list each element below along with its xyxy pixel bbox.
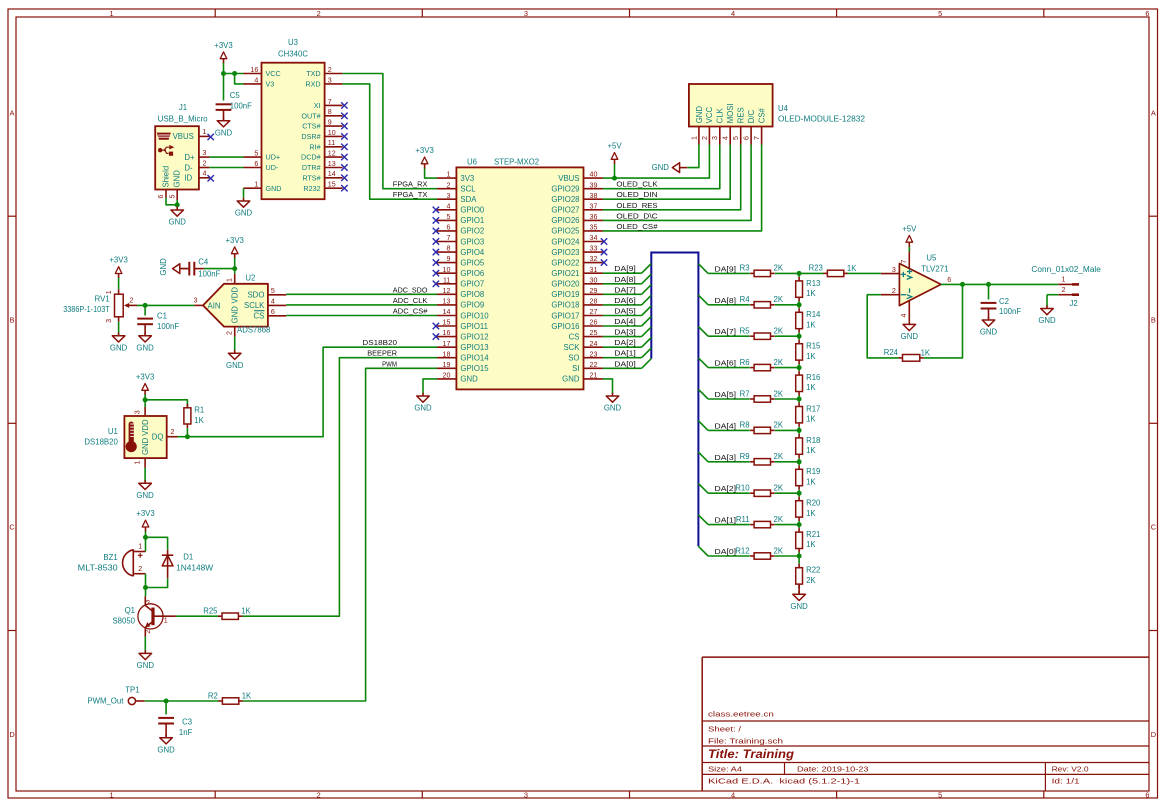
svg-text:R10: R10 — [735, 484, 750, 493]
svg-text:33: 33 — [590, 245, 598, 253]
svg-text:2: 2 — [138, 565, 142, 573]
svg-text:31: 31 — [590, 266, 598, 274]
svg-text:DA[3]: DA[3] — [614, 328, 636, 337]
svg-text:DA[8]: DA[8] — [715, 296, 737, 305]
svg-text:TP1: TP1 — [125, 685, 139, 694]
svg-text:1K: 1K — [806, 320, 816, 329]
svg-text:DA[9]: DA[9] — [715, 264, 737, 273]
svg-text:RXD: RXD — [305, 80, 320, 89]
svg-text:ADC_SDO: ADC_SDO — [393, 285, 428, 294]
svg-text:1K: 1K — [847, 264, 857, 273]
svg-text:DTR#: DTR# — [302, 163, 321, 172]
svg-text:D: D — [1151, 730, 1156, 739]
svg-text:Sheet: /: Sheet: / — [708, 725, 742, 734]
svg-text:TXD: TXD — [306, 69, 320, 78]
svg-text:Shield: Shield — [161, 166, 170, 188]
svg-text:U4: U4 — [778, 104, 789, 113]
svg-text:14: 14 — [443, 308, 451, 316]
svg-text:6: 6 — [254, 160, 258, 168]
svg-text:GPIO7: GPIO7 — [460, 280, 484, 289]
svg-text:GND: GND — [231, 306, 240, 324]
svg-text:RES: RES — [737, 107, 746, 123]
svg-text:D/C: D/C — [747, 110, 756, 124]
svg-text:7: 7 — [328, 98, 332, 106]
svg-text:1: 1 — [690, 136, 698, 140]
svg-text:6: 6 — [947, 276, 951, 284]
svg-text:2K: 2K — [774, 546, 784, 555]
svg-text:2: 2 — [129, 296, 133, 304]
svg-text:CS#: CS# — [758, 107, 767, 123]
svg-text:13: 13 — [443, 298, 451, 306]
svg-text:DA[1]: DA[1] — [614, 349, 636, 358]
svg-text:+3V3: +3V3 — [214, 41, 232, 50]
svg-text:4: 4 — [254, 76, 258, 84]
svg-text:GND: GND — [159, 258, 168, 276]
svg-text:21: 21 — [590, 372, 598, 380]
svg-text:4: 4 — [722, 136, 730, 140]
svg-text:OUT#: OUT# — [301, 111, 320, 120]
svg-text:DA[6]: DA[6] — [614, 296, 636, 305]
svg-text:38: 38 — [590, 192, 598, 200]
svg-text:GND: GND — [173, 170, 182, 188]
svg-text:+5V: +5V — [607, 141, 622, 150]
svg-text:GND: GND — [790, 602, 808, 611]
svg-text:R1: R1 — [194, 406, 204, 415]
svg-text:8: 8 — [446, 245, 450, 253]
svg-text:GND: GND — [110, 343, 128, 352]
svg-text:C5: C5 — [230, 91, 241, 100]
svg-text:1nF: 1nF — [179, 728, 193, 737]
svg-text:Id: 1/1: Id: 1/1 — [1052, 777, 1080, 786]
svg-text:GND: GND — [136, 491, 154, 500]
svg-text:STEP-MXO2: STEP-MXO2 — [494, 157, 539, 166]
svg-text:OLED_CS#: OLED_CS# — [616, 222, 658, 231]
svg-text:GPIO18: GPIO18 — [551, 301, 579, 310]
svg-text:2: 2 — [202, 159, 206, 167]
svg-text:SCLK: SCLK — [244, 301, 265, 310]
svg-text:6: 6 — [1145, 9, 1149, 18]
svg-text:R18: R18 — [806, 436, 820, 445]
svg-text:J1: J1 — [179, 103, 187, 112]
svg-text:15: 15 — [443, 319, 451, 327]
svg-text:class.eetree.cn: class.eetree.cn — [708, 710, 774, 719]
svg-text:R17: R17 — [806, 404, 820, 413]
svg-text:DCD#: DCD# — [301, 153, 321, 162]
svg-text:R16: R16 — [806, 373, 820, 382]
svg-text:B: B — [1151, 316, 1156, 325]
svg-text:1: 1 — [110, 9, 114, 18]
svg-text:1: 1 — [446, 171, 450, 179]
svg-text:MOSI: MOSI — [726, 103, 735, 123]
svg-text:R7: R7 — [740, 389, 750, 398]
svg-text:GPIO12: GPIO12 — [460, 332, 488, 341]
svg-text:GPIO15: GPIO15 — [460, 364, 489, 373]
svg-text:1K: 1K — [241, 607, 251, 616]
svg-text:GPIO5: GPIO5 — [460, 258, 484, 267]
svg-text:DA[5]: DA[5] — [614, 307, 636, 316]
svg-text:8: 8 — [328, 108, 332, 116]
svg-text:4: 4 — [731, 790, 735, 799]
svg-text:11: 11 — [328, 139, 335, 147]
svg-text:DA[8]: DA[8] — [614, 275, 636, 284]
svg-text:2: 2 — [701, 136, 709, 140]
svg-text:U3: U3 — [288, 38, 298, 47]
svg-text:11: 11 — [443, 276, 450, 284]
svg-text:DA[0]: DA[0] — [614, 359, 636, 368]
svg-text:6: 6 — [1145, 790, 1149, 799]
svg-text:CS: CS — [254, 312, 265, 321]
svg-text:KiCad E.D.A. kicad (5.1.2-1)-: KiCad E.D.A. kicad (5.1.2-1)-1 — [708, 777, 860, 786]
svg-text:DA[3]: DA[3] — [715, 453, 737, 462]
svg-text:DA[4]: DA[4] — [715, 421, 737, 430]
svg-text:1K: 1K — [806, 415, 816, 424]
svg-text:DA[7]: DA[7] — [715, 327, 737, 336]
svg-text:GPIO29: GPIO29 — [551, 185, 579, 194]
svg-text:2: 2 — [317, 790, 321, 799]
svg-text:3: 3 — [143, 599, 151, 603]
svg-text:USB_B_Micro: USB_B_Micro — [158, 114, 209, 123]
svg-text:DS18B20: DS18B20 — [84, 437, 118, 446]
svg-text:4: 4 — [900, 313, 908, 317]
svg-text:4: 4 — [731, 9, 735, 18]
svg-text:SDO: SDO — [247, 291, 264, 300]
svg-text:32: 32 — [590, 255, 598, 263]
svg-text:1N4148W: 1N4148W — [176, 563, 214, 572]
svg-text:+3V3: +3V3 — [136, 509, 154, 518]
svg-text:GND: GND — [136, 343, 154, 352]
svg-text:15: 15 — [328, 181, 336, 189]
svg-text:GND: GND — [215, 128, 233, 137]
svg-text:GND: GND — [414, 404, 432, 413]
svg-text:28: 28 — [590, 298, 598, 306]
svg-text:+3V3: +3V3 — [415, 146, 433, 155]
svg-text:17: 17 — [443, 340, 451, 348]
svg-text:D+: D+ — [184, 153, 195, 162]
svg-text:6: 6 — [157, 194, 165, 198]
svg-text:GPIO9: GPIO9 — [460, 301, 484, 310]
svg-text:2: 2 — [328, 66, 332, 74]
svg-text:GPIO3: GPIO3 — [460, 237, 484, 246]
svg-text:OLED-MODULE-12832: OLED-MODULE-12832 — [778, 115, 865, 124]
svg-text:GND: GND — [266, 184, 282, 193]
svg-text:U1: U1 — [108, 427, 118, 436]
svg-text:12: 12 — [328, 150, 336, 158]
svg-text:RV1: RV1 — [95, 295, 110, 304]
svg-text:2: 2 — [446, 181, 450, 189]
svg-text:2K: 2K — [774, 264, 784, 273]
svg-text:OLED_DIN: OLED_DIN — [616, 190, 657, 199]
svg-text:SI: SI — [572, 364, 579, 373]
svg-text:ADC_CS#: ADC_CS# — [393, 307, 428, 316]
svg-text:GND: GND — [235, 209, 253, 218]
svg-text:16: 16 — [443, 329, 451, 337]
svg-text:CH340C: CH340C — [278, 50, 308, 59]
svg-text:2K: 2K — [806, 576, 816, 585]
svg-text:27: 27 — [590, 308, 598, 316]
svg-text:6: 6 — [271, 308, 275, 316]
svg-text:+3V3: +3V3 — [225, 236, 243, 245]
svg-text:2: 2 — [1062, 286, 1066, 294]
svg-text:3V3: 3V3 — [460, 174, 474, 183]
svg-text:5: 5 — [254, 150, 258, 158]
svg-text:12: 12 — [443, 287, 451, 295]
svg-text:DSR#: DSR# — [301, 132, 320, 141]
svg-text:Date: 2019-10-23: Date: 2019-10-23 — [797, 764, 869, 773]
svg-text:16: 16 — [250, 66, 258, 74]
svg-text:S8050: S8050 — [112, 617, 135, 626]
svg-text:4: 4 — [202, 170, 206, 178]
svg-text:File: Training.sch: File: Training.sch — [708, 737, 783, 746]
svg-text:DA[2]: DA[2] — [614, 338, 636, 347]
svg-text:6: 6 — [743, 136, 751, 140]
svg-text:GPIO2: GPIO2 — [460, 227, 484, 236]
svg-text:R14: R14 — [806, 310, 821, 319]
svg-text:5: 5 — [938, 790, 942, 799]
svg-text:V3: V3 — [266, 80, 275, 89]
svg-text:7: 7 — [446, 234, 450, 242]
svg-text:3: 3 — [446, 192, 450, 200]
svg-text:29: 29 — [590, 287, 598, 295]
svg-text:14: 14 — [328, 170, 336, 178]
svg-text:26: 26 — [590, 319, 598, 327]
svg-text:RI#: RI# — [309, 142, 320, 151]
svg-text:3: 3 — [524, 790, 528, 799]
svg-text:36: 36 — [590, 213, 598, 221]
svg-text:BEEPER: BEEPER — [367, 349, 397, 358]
svg-text:J2: J2 — [1070, 299, 1078, 308]
svg-text:10: 10 — [443, 266, 451, 274]
svg-text:GPIO24: GPIO24 — [551, 237, 580, 246]
svg-text:2K: 2K — [774, 515, 784, 524]
svg-text:35: 35 — [590, 224, 598, 232]
svg-text:1: 1 — [134, 460, 142, 464]
svg-text:R232: R232 — [303, 184, 320, 193]
svg-text:2K: 2K — [774, 327, 784, 336]
svg-text:GPIO28: GPIO28 — [551, 195, 579, 204]
svg-text:GPIO23: GPIO23 — [551, 248, 579, 257]
svg-text:+3V3: +3V3 — [109, 256, 127, 265]
svg-text:RTS#: RTS# — [302, 173, 320, 182]
svg-text:1K: 1K — [806, 540, 816, 549]
svg-text:4: 4 — [271, 298, 275, 306]
svg-text:100nF: 100nF — [198, 269, 220, 278]
svg-text:GPIO19: GPIO19 — [551, 290, 579, 299]
svg-text:U5: U5 — [926, 254, 937, 263]
svg-text:GPIO8: GPIO8 — [460, 290, 484, 299]
svg-text:34: 34 — [590, 234, 598, 242]
svg-text:D-: D- — [184, 163, 193, 172]
svg-text:C4: C4 — [198, 258, 209, 267]
svg-text:GND: GND — [141, 437, 150, 455]
svg-text:1: 1 — [1062, 276, 1066, 284]
svg-text:GPIO22: GPIO22 — [551, 258, 579, 267]
svg-text:R9: R9 — [740, 452, 750, 461]
svg-text:3: 3 — [524, 9, 528, 18]
svg-text:R11: R11 — [736, 515, 750, 524]
svg-text:FPGA_TX: FPGA_TX — [393, 190, 428, 199]
svg-text:5: 5 — [271, 287, 275, 295]
svg-text:R4: R4 — [740, 295, 751, 304]
svg-text:Q1: Q1 — [125, 606, 135, 615]
svg-text:3: 3 — [892, 266, 896, 274]
svg-text:DQ: DQ — [152, 433, 164, 442]
svg-text:R25: R25 — [203, 607, 218, 616]
svg-text:VBUS: VBUS — [173, 132, 194, 141]
svg-text:1K: 1K — [194, 416, 204, 425]
svg-text:10: 10 — [328, 129, 336, 137]
svg-text:GND: GND — [695, 106, 704, 124]
svg-text:3386P-1-103T: 3386P-1-103T — [63, 305, 110, 314]
svg-text:DS18B20: DS18B20 — [362, 338, 397, 347]
svg-text:+3V3: +3V3 — [136, 372, 154, 381]
svg-text:C: C — [9, 523, 15, 532]
svg-text:1K: 1K — [806, 289, 816, 298]
svg-text:1: 1 — [202, 128, 206, 136]
svg-text:DA[1]: DA[1] — [715, 516, 737, 525]
svg-text:GPIO27: GPIO27 — [551, 206, 579, 215]
svg-text:GPIO14: GPIO14 — [460, 354, 489, 363]
svg-text:7: 7 — [753, 136, 761, 140]
svg-text:GPIO21: GPIO21 — [551, 269, 579, 278]
svg-text:SCL: SCL — [460, 185, 476, 194]
svg-text:R23: R23 — [809, 264, 823, 273]
svg-text:100nF: 100nF — [230, 101, 252, 110]
svg-text:5: 5 — [732, 136, 740, 140]
svg-text:30: 30 — [590, 276, 598, 284]
svg-text:19: 19 — [443, 361, 451, 369]
svg-text:1K: 1K — [806, 352, 816, 361]
svg-text:DA[6]: DA[6] — [715, 359, 737, 368]
svg-text:2K: 2K — [774, 452, 784, 461]
svg-text:4: 4 — [446, 202, 450, 210]
svg-text:R20: R20 — [806, 499, 821, 508]
svg-text:B: B — [10, 316, 15, 325]
svg-text:GND: GND — [460, 375, 478, 384]
svg-text:3: 3 — [194, 296, 198, 304]
svg-text:GND: GND — [1038, 316, 1056, 325]
svg-text:1K: 1K — [806, 509, 816, 518]
svg-text:GND: GND — [137, 661, 155, 670]
svg-text:GND: GND — [157, 745, 175, 754]
svg-text:2: 2 — [317, 9, 321, 18]
svg-text:Rev: V2.0: Rev: V2.0 — [1052, 764, 1089, 773]
svg-text:C: C — [1151, 523, 1157, 532]
svg-text:VDD: VDD — [141, 419, 150, 436]
svg-text:CS: CS — [569, 332, 580, 341]
svg-text:R8: R8 — [740, 421, 750, 430]
svg-text:CLK: CLK — [716, 107, 725, 123]
svg-text:XI: XI — [314, 101, 321, 110]
svg-text:C1: C1 — [157, 311, 167, 320]
svg-text:1K: 1K — [806, 383, 816, 392]
svg-text:2: 2 — [892, 287, 896, 295]
svg-text:C2: C2 — [999, 297, 1009, 306]
svg-text:GND: GND — [169, 218, 187, 227]
svg-text:R12: R12 — [735, 546, 749, 555]
svg-text:R19: R19 — [806, 467, 820, 476]
svg-text:GPIO17: GPIO17 — [551, 311, 579, 320]
svg-text:UD-: UD- — [266, 163, 279, 172]
svg-text:VDD: VDD — [231, 287, 240, 304]
svg-text:100nF: 100nF — [999, 307, 1021, 316]
svg-text:R13: R13 — [806, 279, 820, 288]
svg-text:37: 37 — [590, 202, 598, 210]
svg-text:GND: GND — [226, 361, 244, 370]
svg-text:GPIO10: GPIO10 — [460, 311, 489, 320]
svg-text:GND: GND — [562, 375, 580, 384]
svg-text:1K: 1K — [806, 446, 816, 455]
svg-text:VCC: VCC — [266, 69, 281, 78]
svg-text:7: 7 — [900, 260, 908, 264]
svg-text:1K: 1K — [242, 691, 252, 700]
svg-text:23: 23 — [590, 350, 598, 358]
svg-text:39: 39 — [590, 181, 598, 189]
svg-text:OLED_RES: OLED_RES — [616, 201, 657, 210]
svg-text:OLED_CLK: OLED_CLK — [616, 180, 657, 189]
svg-text:5: 5 — [938, 9, 942, 18]
svg-text:Size: A4: Size: A4 — [708, 764, 742, 773]
svg-text:2K: 2K — [774, 484, 784, 493]
svg-text:BZ1: BZ1 — [103, 553, 117, 562]
svg-text:ID: ID — [184, 174, 192, 183]
svg-text:D1: D1 — [183, 553, 193, 562]
svg-text:Conn_01x02_Male: Conn_01x02_Male — [1031, 265, 1101, 274]
svg-text:ADC_CLK: ADC_CLK — [393, 296, 428, 305]
svg-text:C3: C3 — [182, 717, 192, 726]
svg-text:1: 1 — [226, 278, 234, 282]
svg-text:OLED_D\C: OLED_D\C — [616, 211, 658, 220]
svg-text:U6: U6 — [467, 157, 477, 166]
svg-text:U2: U2 — [245, 274, 255, 283]
svg-text:1: 1 — [110, 790, 114, 799]
svg-text:2K: 2K — [774, 389, 784, 398]
svg-text:1: 1 — [164, 617, 168, 625]
svg-text:GND: GND — [901, 332, 919, 341]
svg-text:DA[0]: DA[0] — [715, 547, 737, 556]
svg-text:3: 3 — [202, 149, 206, 157]
svg-text:1K: 1K — [806, 477, 816, 486]
svg-text:A: A — [1151, 108, 1156, 117]
svg-text:2: 2 — [226, 331, 234, 335]
svg-text:SDA: SDA — [460, 195, 477, 204]
svg-text:6: 6 — [446, 224, 450, 232]
svg-text:GPIO4: GPIO4 — [460, 248, 484, 257]
svg-text:SCK: SCK — [563, 343, 580, 352]
svg-text:DA[9]: DA[9] — [614, 264, 636, 273]
svg-text:9: 9 — [446, 255, 450, 263]
svg-text:GPIO6: GPIO6 — [460, 269, 484, 278]
svg-text:2K: 2K — [774, 421, 784, 430]
svg-text:22: 22 — [590, 361, 598, 369]
svg-text:R24: R24 — [884, 348, 899, 357]
svg-text:VBUS: VBUS — [558, 174, 579, 183]
svg-text:GPIO26: GPIO26 — [551, 216, 579, 225]
svg-text:9: 9 — [328, 119, 332, 127]
svg-text:25: 25 — [590, 329, 598, 337]
svg-text:R21: R21 — [806, 530, 820, 539]
svg-text:3: 3 — [711, 136, 719, 140]
svg-text:1: 1 — [138, 543, 142, 551]
svg-text:DA[7]: DA[7] — [614, 285, 636, 294]
svg-text:DA[4]: DA[4] — [614, 317, 636, 326]
svg-text:PWM: PWM — [382, 359, 397, 368]
svg-text:FPGA_RX: FPGA_RX — [393, 180, 428, 189]
svg-text:40: 40 — [590, 171, 598, 179]
svg-text:1K: 1K — [921, 348, 931, 357]
svg-text:AIN: AIN — [208, 301, 221, 310]
svg-text:GPIO0: GPIO0 — [460, 206, 484, 215]
svg-text:R3: R3 — [740, 264, 750, 273]
